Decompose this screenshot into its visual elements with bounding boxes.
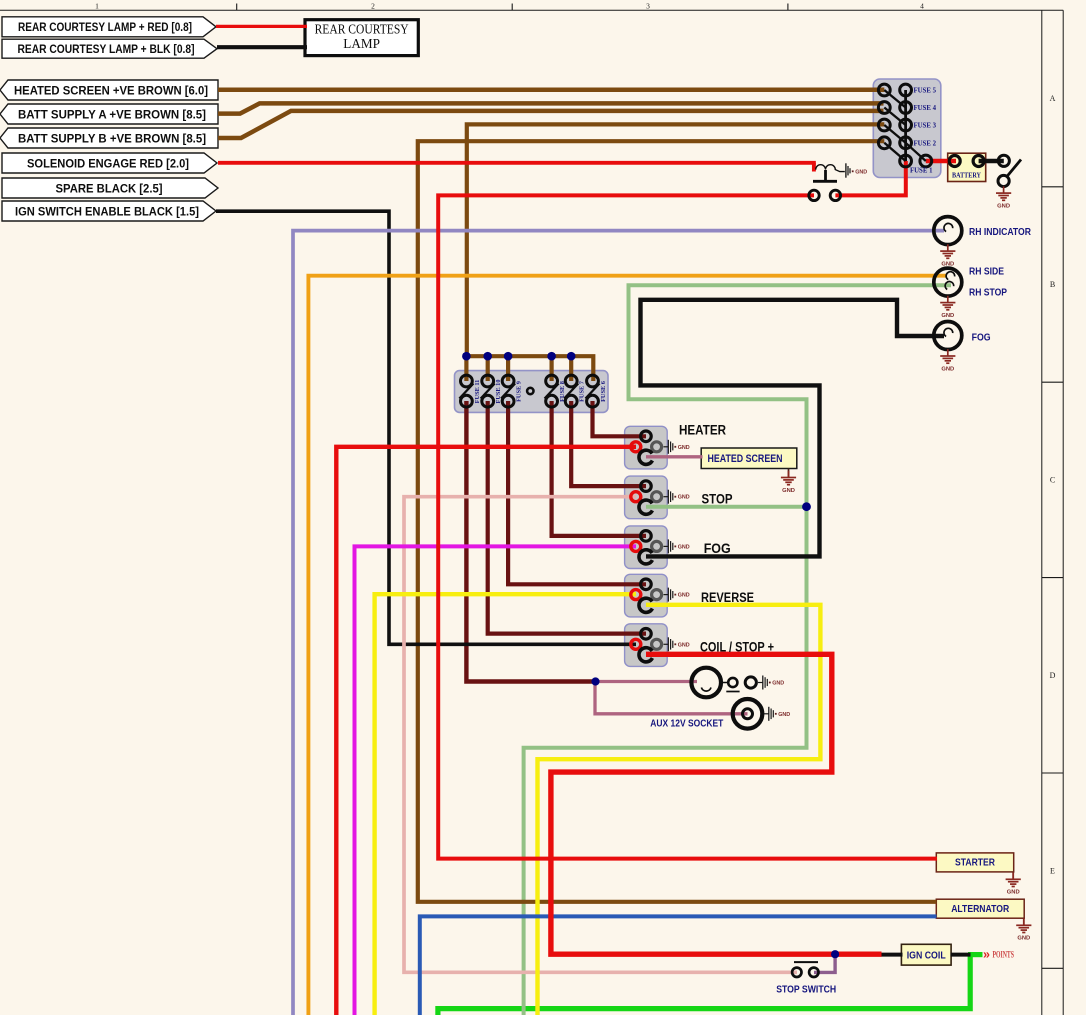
junction dot FB2 bus 4 [547,352,556,361]
box STARTER body [936,853,1013,872]
svg-text:HEATED SCREEN +VE BROWN [6.0]: HEATED SCREEN +VE BROWN [6.0] [14,83,208,97]
wire brown FUSE2 to ALTERNATOR [418,141,937,902]
relay armature [813,170,837,181]
GND stub REVERSE [664,588,690,602]
wire slate purple RH INDICATOR [293,231,944,1015]
svg-text:FUSE 2: FUSE 2 [914,140,937,147]
svg-text:FUSE 4: FUSE 4 [914,105,937,112]
wire mauve HEATER output to HEATED SCREEN [646,455,703,458]
svg-text:4: 4 [920,1,924,10]
wire brown FUSE3 to FB2 bus bar [467,124,885,381]
wire brown FB2 bus stub FUSE9 [506,356,510,381]
fuse box FB2 body [455,371,609,413]
ground below RH SIDE/STOP [940,296,955,319]
wire sage green STOP connector output [646,505,807,509]
GND stub STOP [664,490,690,504]
wire maroon FUSE8 to FOG [552,401,646,536]
svg-text:SPARE BLACK [2.5]: SPARE BLACK [2.5] [56,181,163,195]
connector COIL/STOP+ rings [631,629,662,662]
GND stub FOG [664,539,690,553]
box IGN COIL body [901,944,951,965]
svg-text:REAR COURTESY: REAR COURTESY [315,21,409,36]
svg-text:STARTER: STARTER [955,858,996,869]
svg-text:A: A [1050,94,1056,103]
wire brown FB2 bus stub FUSE8 [549,356,553,381]
wire maroon FUSE6 to HEATER [593,401,647,436]
wire mauve AUX 12V socket feeds [597,680,697,683]
svg-text:IGN COIL: IGN COIL [907,949,946,961]
svg-text:POINTS: POINTS [993,950,1015,960]
wire red FUSE1 to relay contact [835,161,905,195]
fuse FUSE3 [878,119,936,143]
connector block FOG body [625,526,668,569]
wire blue ALTERNATOR [420,916,937,1015]
connector HEATER rings [631,431,662,464]
svg-text:AUX 12V SOCKET: AUX 12V SOCKET [650,718,723,730]
svg-text:LAMP: LAMP [343,36,380,51]
svg-text:3: 3 [646,1,650,10]
GND stub COIL/STOP+ [664,637,690,651]
flag label REAR COURTESY LAMP + RED [0.8] [2,17,216,37]
svg-text:SOLENOID ENGAGE RED [2.0]: SOLENOID ENGAGE RED [2.0] [27,156,189,170]
junction dot FB2 bus 2 [483,352,492,361]
AUX 12V socket shell [733,699,763,729]
wire maroon FUSE10 to COIL/STOP+ [488,401,646,634]
wire pink STOP connector to STOP SWITCH [404,497,797,973]
junction dot FB2 bus 3 [504,352,513,361]
wire dark purple stop switch to junction [814,955,835,972]
flag label REAR COURTESY LAMP + BLK [0.8] [2,39,217,58]
AUX socket polarity line [726,691,739,693]
connector block REVERSE body [625,574,668,617]
wire maroon FUSE9 to REVERSE [508,401,646,584]
svg-text:FUSE 6: FUSE 6 [600,381,607,402]
svg-text:BATTERY: BATTERY [952,171,981,180]
svg-text:HEATED SCREEN: HEATED SCREEN [708,453,783,465]
wire black BATTERY to switch [979,159,1004,163]
wire brown BATT SUPPLY A to FUSE4 [218,103,884,113]
fuse FUSE4 [878,102,936,125]
AUX socket contact large [745,677,756,688]
connector REVERSE rings [631,579,662,612]
svg-text:FUSE 11: FUSE 11 [474,380,481,404]
lamp RH SIDE / RH STOP [934,268,962,296]
svg-text:FUSE 5: FUSE 5 [914,88,937,95]
svg-text:FUSE 1: FUSE 1 [910,168,933,175]
fuse FUSE7 [564,375,586,407]
svg-text:E: E [1050,867,1055,876]
connector block STOP body [625,476,668,519]
svg-text:REVERSE: REVERSE [701,590,754,605]
wire brown HEATED SCREEN feed to FUSE5 [218,88,884,93]
connector block HEATER body [625,426,668,469]
svg-text:RH SIDE: RH SIDE [969,265,1004,277]
connector block COIL/STOP+ body [625,624,668,667]
ground below FOG [940,349,955,372]
wire orange RH SIDE [308,276,947,1015]
svg-text:REAR COURTESY LAMP + RED [0.8]: REAR COURTESY LAMP + RED [0.8] [18,20,192,34]
wire red SOLENOID ENGAGE to relay coil [218,161,816,165]
ground below RH INDICATOR [940,244,955,267]
svg-text:RH STOP: RH STOP [969,286,1007,298]
wire brown FB2 bus stub FUSE10 [486,356,490,381]
wire bright green IGN COIL to POINTS and bottom [968,952,983,957]
svg-text:HEATER: HEATER [679,423,726,438]
svg-text:FUSE 7: FUSE 7 [579,381,586,402]
fuse FUSE8 [545,375,567,407]
ground below ALTERNATOR [1016,918,1031,942]
fuse FUSE5 [878,84,936,107]
wire red COIL/STOP+ output to IGN COIL [551,654,882,954]
svg-text:BATT SUPPLY B +VE BROWN [8.5]: BATT SUPPLY B +VE BROWN [8.5] [18,131,206,145]
junction dot FB2 bus 1 [462,352,471,361]
battery terminal right [973,156,984,167]
GND stub AUX socket 1 [758,676,784,690]
wire maroon FUSE7 to STOP [571,401,646,486]
relay contact left [809,190,819,200]
wire red HEATER connector input [336,447,636,1015]
svg-text:FOG: FOG [972,332,991,344]
wire black REAR COURTESY LAMP BLK [217,45,307,49]
svg-text:D: D [1050,671,1056,680]
ground below STARTER [1006,872,1021,896]
junction dot FB2 bus 5 [567,352,576,361]
ground below battery switch [996,186,1011,209]
flag label IGN SWITCH ENABLE BLACK [1.5] [2,201,216,221]
wire brown BATT SUPPLY B to FUSE4 [218,111,884,138]
fuse FUSE1 and FB1 bus bar [900,90,933,175]
lamp FOG [934,322,962,350]
fuse FUSE9 [501,375,522,407]
box HEATED SCREEN body [701,448,797,469]
junction dot STOP green [802,502,811,511]
box ALTERNATOR body [936,899,1024,918]
fuse FUSE10 [481,375,503,407]
svg-text:FOG: FOG [704,541,731,556]
battery terminal left [949,156,960,167]
wire yellow REVERSE connector output [538,605,821,1015]
GND stub HEATER [664,440,690,454]
junction dot AUX feed [591,677,599,685]
AUX socket contact small [728,678,737,687]
wire red relay contact to STARTER [438,195,937,858]
relay solenoid coil [816,163,868,177]
svg-text:STOP SWITCH: STOP SWITCH [776,984,836,996]
svg-text:GND: GND [855,169,867,175]
wire brown FB2 bus stub FUSE7 [569,356,573,381]
svg-text:2: 2 [371,1,375,10]
fuse FUSE2 [878,137,936,161]
svg-text:FUSE 9: FUSE 9 [516,381,523,402]
drawing frame right border [1042,10,1063,1015]
svg-text:»: » [983,948,990,962]
fuse FUSE11 [459,375,481,407]
svg-text:1: 1 [95,1,99,10]
battery master switch [998,155,1021,186]
box REAR COURTESY LAMP [305,20,418,56]
flag label SOLENOID ENGAGE RED [2.0] [2,153,217,173]
relay contact right [830,190,840,200]
flag label BATT SUPPLY B +VE BROWN [8.5] [0,128,218,148]
drawing frame top border [0,1,1063,10]
flag label BATT SUPPLY A +VE BROWN [8.5] [0,104,218,124]
flag label SPARE BLACK [2.5] [2,178,218,198]
junction dot IGN COIL red [831,950,839,958]
fuse FUSE6 [586,375,608,407]
svg-text:REAR COURTESY LAMP + BLK [0.8]: REAR COURTESY LAMP + BLK [0.8] [18,42,195,56]
AUX 12V socket lamp [691,668,729,698]
wire red FUSE1 to BATTERY [926,159,956,163]
svg-text:BATT SUPPLY A +VE BROWN [8.5]: BATT SUPPLY A +VE BROWN [8.5] [18,107,206,121]
lamp RH INDICATOR [934,217,962,245]
ground below HEATED SCREEN [781,469,796,494]
wire black FOG connector loop to FOG lamp [641,300,945,557]
flag label HEATED SCREEN +VE BROWN [6.0] [0,80,218,100]
svg-text:C: C [1050,476,1055,485]
STOP SWITCH contacts [792,962,818,977]
connector STOP rings [631,481,662,514]
GND stub AUX socket 2 [764,707,790,721]
svg-text:FUSE 3: FUSE 3 [914,123,937,130]
fuse box FB1 body [873,79,941,178]
svg-text:STOP: STOP [702,492,733,507]
svg-text:IGN SWITCH ENABLE BLACK [1.5]: IGN SWITCH ENABLE BLACK [1.5] [15,204,199,218]
svg-text:RH INDICATOR: RH INDICATOR [969,226,1031,238]
svg-text:B: B [1050,280,1055,289]
wire sage green RH STOP loop to bottom [524,285,951,1015]
wire brown FB2 bus stub FUSE11 [464,356,468,381]
wire maroon FUSE11 to AUX socket junction [466,401,597,682]
box BATTERY body [948,153,986,181]
wire red REAR COURTESY LAMP RED [216,25,307,28]
wire magenta FOG connector input [355,546,637,1015]
connector FOG rings [631,531,662,564]
label POINTS with chevrons [983,948,1014,962]
svg-text:ALTERNATOR: ALTERNATOR [951,904,1010,915]
wire yellow REVERSE connector input [375,594,636,1015]
svg-text:COIL / STOP +: COIL / STOP + [700,640,774,655]
wire black IGN SWITCH ENABLE to COIL/STOP+ [216,211,636,644]
FB2 mounting hole [527,388,533,394]
wire black IGN COIL links [881,953,903,957]
